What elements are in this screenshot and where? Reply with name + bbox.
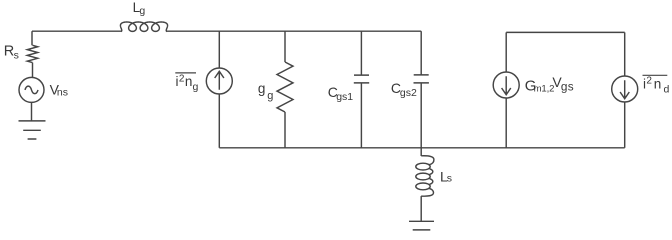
wire right loop top rail <box>506 31 625 33</box>
arrow of i2nd pointing down <box>620 80 629 99</box>
wire i2nd branch lower <box>624 102 626 148</box>
svg-text:s: s <box>447 172 452 184</box>
svg-text:gs2: gs2 <box>400 87 417 99</box>
arrow of i2ng pointing up <box>215 71 224 90</box>
wire top rail left segment <box>32 30 121 32</box>
inductor Ls <box>416 156 434 196</box>
ground under Vns <box>19 121 46 139</box>
svg-text:g: g <box>267 90 273 102</box>
overline of i2nd label <box>643 74 668 76</box>
resistor gg <box>277 62 293 112</box>
capacitor Cgs2 plates <box>414 75 429 83</box>
svg-text:n: n <box>654 77 662 92</box>
resistor Rs <box>27 45 37 62</box>
wire Cgs2 branch upper <box>420 31 422 75</box>
wire i2ng branch lower <box>218 94 220 148</box>
label i2nd <box>643 76 670 96</box>
ground under Ls <box>409 221 434 230</box>
current source i2nd circle <box>612 76 638 102</box>
arrow of Gm pointing down <box>502 76 511 95</box>
wire bottom rail <box>219 147 624 149</box>
sine symbol of Vns <box>25 86 38 94</box>
wire Cgs1 branch upper <box>360 31 362 75</box>
label Rs <box>4 44 19 62</box>
svg-text:g: g <box>139 5 145 17</box>
wire gg branch upper <box>284 31 286 62</box>
wire Ls upper stub <box>420 148 422 156</box>
svg-text:gs: gs <box>561 80 574 94</box>
current source Gm circle <box>493 72 519 98</box>
svg-text:2: 2 <box>646 76 652 87</box>
wire i2ng branch upper <box>218 31 220 68</box>
inductor Lg <box>120 22 167 31</box>
wire Cgs1 branch lower <box>360 83 362 148</box>
wire top rail right segment <box>167 30 421 32</box>
svg-text:d: d <box>664 84 670 96</box>
label Cgs2 <box>391 80 417 99</box>
wire Rs to Vns <box>32 63 34 78</box>
svg-text:s: s <box>14 50 19 62</box>
label Cgs1 <box>328 84 353 103</box>
wire Vns to ground <box>31 102 33 121</box>
svg-text:ns: ns <box>57 87 68 99</box>
overline of i2ng label <box>175 72 196 74</box>
svg-text:gs1: gs1 <box>336 91 353 103</box>
svg-text:n: n <box>185 74 193 89</box>
source Vns circle <box>19 77 44 102</box>
capacitor Cgs1 plates <box>354 75 369 83</box>
wire Cgs2 branch lower <box>420 83 422 148</box>
wire Ls to ground <box>420 196 422 221</box>
svg-text:g: g <box>193 81 199 93</box>
label i2ng <box>176 73 199 93</box>
label Vns <box>50 81 68 98</box>
wire Gm branch lower <box>505 98 507 148</box>
wire gg branch lower <box>284 112 286 148</box>
wire i2nd branch upper <box>624 32 626 76</box>
current source i2ng circle <box>206 68 232 94</box>
svg-text:g: g <box>258 81 266 96</box>
label Ls <box>440 168 452 184</box>
svg-text:m1,2: m1,2 <box>534 84 555 95</box>
wire left branch upper <box>31 31 33 45</box>
label Gm12Vgs <box>525 74 574 95</box>
wire Gm branch upper <box>505 32 507 72</box>
label gg <box>258 81 273 102</box>
label Lg <box>133 0 146 17</box>
